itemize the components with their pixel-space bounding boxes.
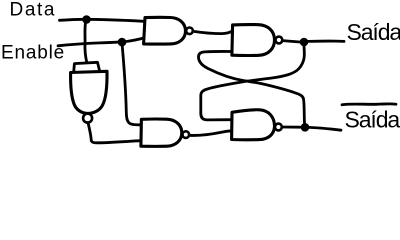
node Q-bar junction	[301, 123, 310, 132]
wire Data input to NAND1	[60, 19, 144, 21]
wire NAND4 output to Q-bar junction	[282, 126, 300, 129]
wire Enable branch down to NAND2 top input	[122, 43, 141, 125]
node Q junction	[300, 38, 309, 47]
nand gate NAND3 bubble	[276, 37, 283, 44]
inverter U1 body	[71, 71, 107, 113]
nand gate NAND4 bubble	[275, 124, 282, 131]
wire inverter output to NAND2 bottom input	[88, 123, 141, 143]
nand gate NAND2 body	[141, 119, 182, 146]
node Enable junction	[118, 38, 127, 47]
svg-text:Enable: Enable	[1, 43, 65, 64]
wire Enable input to NAND1	[58, 38, 144, 46]
wire Q output to Saída	[308, 40, 344, 43]
wire feedback Q-bar to NAND3 bottom input	[198, 51, 304, 123]
wire Data branch down to inverter input	[85, 19, 87, 62]
wire NAND1 output to NAND3 top input	[193, 31, 232, 33]
overline of Saída-bar	[342, 104, 396, 105]
wire NAND3 output to Q junction	[282, 41, 300, 42]
wire Q-bar output to Saída-bar	[309, 127, 341, 130]
nand gate NAND1 body	[144, 17, 186, 44]
wire feedback Q to NAND4 top input	[201, 47, 305, 120]
inverter U1 cap	[74, 62, 100, 71]
svg-text:Data: Data	[10, 0, 57, 21]
svg-text:Saída: Saída	[347, 19, 400, 45]
node Data junction	[82, 15, 91, 24]
nand gate NAND2 bubble	[183, 131, 190, 138]
svg-text:Saída: Saída	[345, 106, 400, 132]
wire NAND2 output to NAND4 bottom input	[189, 131, 231, 136]
inverter U1 bubble	[83, 114, 92, 123]
nand gate NAND4 body	[232, 110, 275, 140]
nand gate NAND3 body	[232, 25, 275, 56]
nand gate NAND1 bubble	[186, 28, 193, 35]
